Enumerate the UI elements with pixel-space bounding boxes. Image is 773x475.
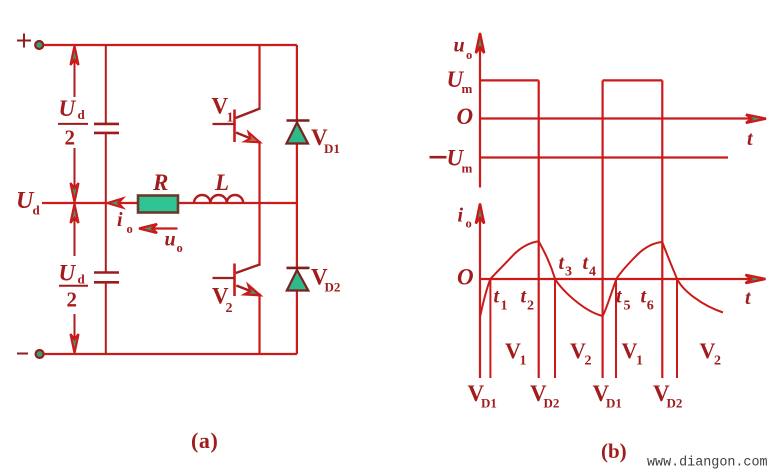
svg-text:D2: D2	[325, 280, 341, 295]
label minus Um	[430, 156, 447, 159]
svg-text:o: o	[466, 217, 472, 231]
svg-text:1: 1	[501, 299, 508, 314]
label V1 interval	[505, 338, 527, 369]
svg-text:O: O	[457, 104, 474, 129]
arrow uo below mid rail	[150, 227, 178, 229]
svg-text:u: u	[165, 229, 176, 251]
wire Ud dimension line mid-lower segment	[74, 204, 76, 256]
axis t io horizontal	[480, 278, 757, 280]
svg-text:2: 2	[226, 301, 233, 316]
vertical line t4 long	[601, 80, 603, 378]
base bar	[233, 264, 236, 297]
emitter arrowhead	[245, 132, 260, 142]
svg-text:1: 1	[227, 111, 234, 126]
svg-text:U: U	[59, 261, 77, 286]
svg-text:o: o	[466, 48, 472, 62]
label VD1	[311, 125, 340, 156]
vertical line t3	[554, 279, 556, 378]
base bar	[233, 110, 236, 143]
label V2	[212, 284, 233, 317]
anode wire	[296, 45, 298, 203]
capacitor C1 plates	[94, 123, 119, 126]
svg-text:d: d	[78, 272, 86, 287]
arrow axis t io	[746, 275, 766, 283]
svg-text:o: o	[127, 222, 133, 236]
waveform uo pulse 1 top	[480, 79, 539, 81]
svg-text:2: 2	[65, 126, 76, 150]
arrow axis uo	[476, 33, 484, 53]
arrow io on mid rail	[108, 199, 123, 208]
axis t uo horizontal	[480, 117, 757, 119]
anode wire	[296, 203, 298, 354]
label t1	[494, 286, 508, 314]
resistor R	[138, 196, 178, 213]
svg-text:4: 4	[589, 265, 596, 280]
svg-text:D1: D1	[324, 141, 340, 156]
vertical line t1	[489, 279, 491, 378]
svg-text:D2: D2	[667, 396, 683, 411]
diode VD2	[287, 203, 310, 354]
collector wire	[258, 45, 260, 109]
collector diagonal	[236, 108, 261, 118]
label io	[117, 209, 133, 236]
svg-text:2: 2	[67, 288, 78, 312]
svg-text:d: d	[78, 107, 86, 122]
cathode bar	[287, 267, 310, 270]
svg-text:5: 5	[624, 299, 631, 314]
base lead	[213, 277, 235, 279]
label VD1 tick 2	[593, 381, 622, 411]
label t3	[559, 252, 573, 280]
plus terminal sign	[17, 34, 31, 48]
cathode bar	[287, 119, 310, 122]
label V1 interval 2	[622, 338, 644, 369]
axis io vertical	[479, 207, 481, 378]
capacitor C2 plates	[94, 271, 119, 274]
svg-text:d: d	[33, 203, 41, 218]
wire mid rail	[42, 202, 297, 204]
triangle	[287, 123, 309, 144]
base lead	[213, 123, 235, 125]
label t5	[616, 286, 631, 314]
waveform uo pulse 2 top	[603, 79, 663, 81]
svg-text:R: R	[152, 170, 168, 195]
arrow up from mid node	[71, 204, 79, 223]
label V1	[212, 94, 234, 126]
svg-text:D1: D1	[606, 396, 622, 411]
wire Ud dimension line mid-upper segment	[74, 148, 76, 202]
transistor V2	[213, 203, 261, 354]
label Ud source	[16, 188, 41, 218]
svg-text:m: m	[462, 81, 473, 96]
emitter diagonal	[236, 133, 261, 143]
svg-text:6: 6	[647, 299, 654, 314]
svg-text:www.diangon.com: www.diangon.com	[647, 456, 768, 471]
svg-text:i: i	[117, 209, 123, 231]
label Ud/2 upper	[59, 96, 86, 150]
label VD2 tick 2	[653, 381, 682, 411]
svg-text:m: m	[462, 161, 473, 176]
wire top rail	[44, 44, 297, 46]
label t2	[521, 286, 535, 314]
svg-text:2: 2	[585, 354, 592, 369]
svg-text:D2: D2	[544, 396, 560, 411]
capacitor C1 lower wire	[105, 133, 107, 203]
svg-text:(a): (a)	[191, 428, 218, 453]
arrow down at bottom rail	[71, 334, 79, 353]
wire Ud dimension line upper segment	[74, 47, 76, 97]
svg-text:1: 1	[520, 354, 527, 369]
label Ud/2 lower	[59, 261, 86, 312]
label VD2 tick	[530, 381, 559, 411]
svg-text:o: o	[177, 241, 183, 255]
terminal node top	[35, 41, 43, 49]
wire Ud dimension line lower segment	[74, 314, 76, 352]
svg-text:2: 2	[714, 354, 721, 369]
emitter arrowhead	[245, 285, 260, 295]
svg-text:D1: D1	[481, 396, 497, 411]
svg-text:L: L	[214, 170, 229, 195]
svg-text:u: u	[454, 35, 465, 57]
capacitor C1 branch upper wire	[105, 45, 107, 124]
svg-text:1: 1	[636, 354, 643, 369]
svg-text:U: U	[59, 96, 77, 121]
svg-text:(b): (b)	[601, 439, 627, 463]
label t4	[583, 252, 597, 280]
label V2 interval	[570, 338, 592, 369]
label V2 interval 2	[700, 338, 722, 369]
collector diagonal	[236, 264, 261, 273]
emitter wire	[258, 143, 260, 204]
triangle	[287, 270, 309, 291]
label t6	[641, 286, 654, 314]
label uo	[454, 35, 473, 63]
arrow up at top rail	[71, 46, 79, 65]
svg-text:i: i	[458, 205, 464, 227]
svg-text:O: O	[457, 265, 474, 290]
transistor V1	[213, 45, 261, 203]
axis uo vertical	[479, 36, 481, 188]
vertical line t5	[615, 279, 617, 378]
terminal node bottom	[36, 350, 44, 358]
io current curve	[480, 241, 723, 317]
label VD2	[311, 265, 340, 295]
collector wire	[258, 203, 260, 265]
label io	[458, 205, 472, 231]
label uo	[165, 229, 183, 256]
svg-text:3: 3	[565, 265, 572, 280]
arrow axis io	[476, 204, 484, 224]
vertical line t2 long	[538, 80, 540, 378]
vertical line t7	[676, 279, 678, 378]
emitter diagonal	[236, 286, 260, 296]
arrow down at mid node	[71, 183, 79, 202]
capacitor C2 lower wire	[105, 282, 107, 354]
inductor L	[194, 195, 243, 203]
wire bottom rail	[44, 353, 297, 355]
diode VD1	[287, 45, 310, 203]
capacitor C2 branch upper wire	[105, 203, 107, 273]
waveform uo minus Um level	[480, 156, 728, 158]
arrow axis t uo	[746, 115, 766, 123]
minus terminal sign	[17, 353, 28, 355]
vertical line t6 long	[661, 80, 663, 378]
svg-text:2: 2	[527, 299, 534, 314]
label Um	[447, 67, 473, 96]
emitter wire	[258, 296, 260, 355]
label VD1 tick	[468, 381, 497, 411]
